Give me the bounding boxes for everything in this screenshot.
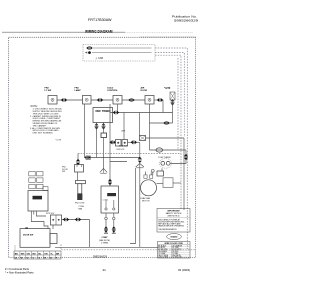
svg-text:FAN: FAN xyxy=(79,207,83,210)
diagram frame (dotted border) xyxy=(9,37,196,257)
legend box xyxy=(83,45,155,62)
thermostat sensor stem xyxy=(78,184,82,194)
connector xyxy=(110,140,116,144)
terminal box 3 xyxy=(113,96,122,105)
compressor lead end terminal xyxy=(112,232,116,234)
wire xyxy=(139,168,141,248)
svg-text:WH WHITE: WH WHITE xyxy=(172,255,181,257)
svg-text:41: 41 xyxy=(103,268,107,272)
wire xyxy=(150,122,173,124)
svg-text:5995266329: 5995266329 xyxy=(93,255,108,258)
svg-text:* = Non-Illustrated Parts: * = Non-Illustrated Parts xyxy=(5,271,34,275)
connector xyxy=(97,98,103,102)
connector xyxy=(128,98,134,102)
connector xyxy=(131,140,137,144)
thermostat sensor cap xyxy=(76,181,86,184)
thermostat sensor tip xyxy=(77,194,82,200)
wire xyxy=(91,99,113,101)
connector xyxy=(138,157,142,163)
svg-text:AMB SW: AMB SW xyxy=(119,144,127,147)
svg-text:⏚ CAB: ⏚ CAB xyxy=(95,56,103,60)
compartment dashed boundary 4b xyxy=(177,58,179,150)
wire xyxy=(110,161,127,163)
wire xyxy=(150,149,187,151)
wire xyxy=(84,104,86,158)
wire xyxy=(57,99,83,101)
svg-text:2 TERM: 2 TERM xyxy=(101,242,108,244)
defrost limit box xyxy=(163,178,173,188)
connector xyxy=(84,156,90,160)
wire xyxy=(96,123,98,158)
svg-text:LGN LT GRN: LGN LT GRN xyxy=(158,257,169,259)
svg-text:DOOR: DOOR xyxy=(141,90,148,92)
door switch box xyxy=(20,229,50,248)
terminal box 1 xyxy=(48,96,57,105)
svg-text:NOTE:: NOTE: xyxy=(31,106,38,108)
door box corner terminal xyxy=(25,227,28,229)
wire xyxy=(55,246,158,248)
wire xyxy=(173,182,181,184)
wire color code table xyxy=(158,242,191,259)
svg-text:LINE: LINE xyxy=(121,131,126,133)
svg-text:GN: GN xyxy=(27,253,31,255)
svg-text:COND: COND xyxy=(103,200,109,202)
wire xyxy=(110,141,116,143)
svg-text:FRZ: FRZ xyxy=(75,88,80,90)
svg-text:DEF HTR: DEF HTR xyxy=(117,149,125,151)
timer terminal connector xyxy=(95,123,99,129)
wire xyxy=(172,100,174,123)
compartment bottom dashed line xyxy=(61,245,196,250)
svg-text:BR: BR xyxy=(56,253,60,255)
legend wire sample 2 xyxy=(92,52,152,54)
svg-text:BK: BK xyxy=(15,253,19,255)
connector xyxy=(75,218,81,222)
connector xyxy=(63,218,69,222)
svg-text:* 15 W: * 15 W xyxy=(55,140,61,142)
condenser fan motor M2 xyxy=(101,186,119,213)
svg-text:* HTR: * HTR xyxy=(164,88,171,90)
connector xyxy=(108,179,112,185)
wire xyxy=(171,150,187,164)
bottom terminal table xyxy=(14,251,61,259)
wire xyxy=(183,138,185,210)
svg-text:SW: SW xyxy=(62,171,65,173)
connector xyxy=(61,98,67,102)
legend plug symbol xyxy=(85,51,91,54)
svg-text:LBL LT BLUE: LBL LT BLUE xyxy=(158,255,169,257)
compressor lead end terminal xyxy=(104,232,108,234)
compartment dashed boundary 1 xyxy=(155,48,187,250)
wire xyxy=(31,216,48,229)
connector xyxy=(163,121,169,125)
wire xyxy=(110,112,173,114)
lead terminal circle xyxy=(113,217,116,220)
motor lead wire xyxy=(105,213,107,233)
ground chassis fan xyxy=(136,162,144,168)
defrost timer U1 xyxy=(93,108,113,123)
lamp L1 xyxy=(140,136,146,141)
ice maker pin 3 wire xyxy=(36,211,46,216)
header rule xyxy=(2,31,125,33)
svg-text:RD RED: RD RED xyxy=(172,251,179,253)
wire xyxy=(117,104,119,113)
wire xyxy=(157,183,164,185)
svg-text:03 (0303): 03 (0303) xyxy=(178,268,190,272)
svg-text:LT SW: LT SW xyxy=(45,90,53,92)
wire xyxy=(103,123,105,134)
wire xyxy=(149,104,151,150)
relay terminal block A xyxy=(116,140,122,147)
terminal box 4 xyxy=(145,96,154,105)
svg-text:BL BLUE: BL BLUE xyxy=(158,247,166,249)
door box tab xyxy=(50,234,57,244)
wire xyxy=(14,245,16,251)
wire xyxy=(139,142,141,157)
svg-text:DOOR SW: DOOR SW xyxy=(23,234,33,236)
connector xyxy=(157,98,163,102)
ice maker notch xyxy=(43,187,48,191)
timer terminal connector xyxy=(102,123,106,129)
svg-text:FRZ: FRZ xyxy=(45,88,50,90)
part number stamp oval xyxy=(167,234,182,240)
terminal box 2 xyxy=(83,96,92,105)
wire xyxy=(161,168,163,171)
svg-text:5995266329: 5995266329 xyxy=(174,19,198,23)
wire xyxy=(109,104,111,186)
wire xyxy=(154,99,163,101)
svg-text:UNIT NOT RUNNING.: UNIT NOT RUNNING. xyxy=(33,133,54,135)
svg-text:(SEE NOTE 4): (SEE NOTE 4) xyxy=(168,216,180,218)
svg-text:WIRING DIAGRAM: WIRING DIAGRAM xyxy=(85,29,113,34)
ice maker terminal strip xyxy=(29,172,43,189)
wire xyxy=(77,172,79,181)
svg-text:595266: 595266 xyxy=(171,237,179,239)
svg-text:CONTROL: CONTROL xyxy=(107,90,118,92)
wire xyxy=(152,172,154,175)
wire xyxy=(103,138,105,169)
freezer door switch S2 xyxy=(75,165,84,173)
wire xyxy=(146,137,185,139)
defrost thermostat assembly xyxy=(159,158,171,168)
svg-text:THE REFRIGERATOR.: THE REFRIGERATOR. xyxy=(158,228,177,231)
connector xyxy=(171,99,175,105)
svg-text:GN GREEN: GN GREEN xyxy=(158,251,168,253)
lamp oval F1 xyxy=(156,148,163,152)
compartment dashed boundary 3 xyxy=(155,55,181,210)
compartment dashed divider xyxy=(78,153,181,155)
connector xyxy=(76,159,80,165)
relay terminal block B xyxy=(122,140,128,147)
ice maker pin 1 wire xyxy=(30,211,32,216)
ice maker pin 2 wire xyxy=(33,211,35,215)
svg-text:LAMP: LAMP xyxy=(75,89,82,92)
ground cabinet xyxy=(100,169,107,174)
wire xyxy=(128,141,140,143)
ice maker body xyxy=(28,191,48,212)
wire xyxy=(85,157,140,159)
svg-text:DEF TIMER: DEF TIMER xyxy=(96,109,111,113)
plug connector xyxy=(86,156,90,159)
svg-text:FRT17B30AW: FRT17B30AW xyxy=(88,18,112,22)
switch S1 xyxy=(101,133,107,138)
connector xyxy=(184,154,188,160)
svg-text:G: G xyxy=(27,257,29,259)
svg-text:YL YELLOW: YL YELLOW xyxy=(172,257,182,259)
svg-text:PANELS BEFORE OPERATING: PANELS BEFORE OPERATING xyxy=(158,225,184,228)
heater element R1 xyxy=(170,92,175,100)
svg-text:FRZ CONT: FRZ CONT xyxy=(75,203,85,205)
wire xyxy=(123,113,125,140)
lead terminal circle xyxy=(105,217,108,220)
wire xyxy=(89,220,91,248)
svg-text:IMPORTANT: IMPORTANT xyxy=(167,210,180,213)
wire xyxy=(77,154,79,161)
wire xyxy=(62,219,90,221)
defrost heater box xyxy=(157,171,164,176)
legend wire sample 1 xyxy=(93,47,152,49)
motor lead wire xyxy=(113,213,115,233)
wire xyxy=(139,113,141,136)
ice maker label xyxy=(33,196,43,200)
evaporator fan motor M1 xyxy=(141,172,157,196)
legend connector symbol xyxy=(86,46,92,50)
terminal circle xyxy=(151,169,154,172)
svg-text:AIR: AIR xyxy=(141,87,145,90)
wire xyxy=(162,100,164,113)
warning notes box xyxy=(157,209,190,233)
svg-text:MOTOR: MOTOR xyxy=(142,200,150,202)
svg-text:RD: RD xyxy=(33,253,37,255)
connector xyxy=(113,111,119,115)
svg-text:OR: OR xyxy=(44,253,48,255)
water valve solenoid pair V1 xyxy=(51,215,62,225)
svg-text:WH: WH xyxy=(21,253,25,255)
wire xyxy=(122,99,145,101)
connector xyxy=(112,226,116,232)
svg-text:PK PINK: PK PINK xyxy=(172,247,179,249)
wire xyxy=(130,168,136,244)
compartment dashed boundary 2 xyxy=(155,53,184,137)
connector xyxy=(104,226,108,232)
wire xyxy=(52,225,54,229)
notes text block xyxy=(30,106,63,142)
svg-text:COLD: COLD xyxy=(107,87,114,89)
svg-text:# = Functional Parts: # = Functional Parts xyxy=(5,267,30,271)
